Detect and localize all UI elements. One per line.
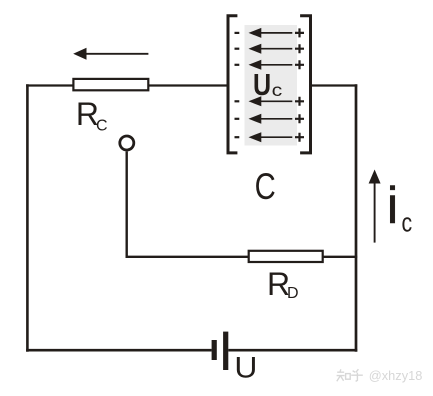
svg-text:C: C (255, 167, 276, 208)
wire: left vertical (top-left corner down to bottom-left corner) (26, 84, 29, 352)
arrow: current direction above R_C (73, 48, 148, 60)
svg-text:i: i (387, 177, 399, 235)
capacitor row 2: plus sign (295, 44, 304, 53)
wire: top horizontal, capacitor right plate to top-right corner (312, 84, 357, 86)
svg-text:@xhzy18: @xhzy18 (369, 368, 423, 383)
wire: bottom horizontal, left corner to battery (26, 349, 212, 352)
capacitor row 5: minus sign (235, 118, 240, 120)
label R_C (76, 96, 99, 132)
wire: right vertical (top-right corner to bottom-right corner) (355, 84, 358, 352)
wire: bottom horizontal, battery to bottom-right corner (228, 349, 357, 352)
svg-text:U: U (253, 66, 271, 101)
svg-text:D: D (287, 285, 299, 302)
wire: top horizontal, left segment from left corner to R_C (26, 84, 73, 86)
svg-text:c: c (402, 208, 413, 238)
resistor R_C body (73, 79, 148, 90)
watermark: zhihu logo glyphs (drawn) (337, 369, 363, 381)
capacitor row 4: minus sign (235, 100, 240, 102)
label C (capacitor) (255, 167, 276, 208)
capacitor row 1: field arrow (249, 28, 293, 38)
capacitor C: right plate bracket (300, 16, 310, 153)
capacitor row 6: minus sign (235, 136, 240, 138)
wire: node stem down to middle wire (125, 151, 127, 258)
capacitor row 2: minus sign (235, 48, 240, 50)
label U (source voltage) (234, 351, 257, 385)
capacitor row 1: plus sign (295, 28, 304, 37)
capacitor row 2: field arrow (249, 44, 293, 54)
capacitor row 3: plus sign (295, 60, 304, 69)
svg-text:U: U (234, 351, 257, 385)
capacitor row 6: plus sign (295, 133, 304, 142)
capacitor C: dielectric gray band (245, 25, 298, 146)
battery: negative plate (short bar) (212, 340, 217, 360)
capacitor row 4: plus sign (295, 97, 304, 106)
svg-text:C: C (96, 117, 108, 134)
capacitor row 4: field arrow (249, 96, 293, 106)
capacitor C: left plate bracket (228, 16, 237, 153)
node: terminal circle (120, 136, 134, 150)
label R_D (267, 266, 290, 302)
wire: middle horizontal, node stem to R_D (126, 256, 249, 258)
arrow: i_c current direction (upward) (369, 170, 381, 243)
capacitor row 5: field arrow (249, 114, 293, 124)
capacitor row 5: plus sign (295, 114, 304, 123)
wire: middle horizontal, R_D to right vertical (323, 256, 357, 258)
resistor R_D body (249, 251, 323, 262)
svg-text:c: c (272, 81, 283, 101)
wire: top horizontal, R_C to capacitor left plate (148, 84, 226, 86)
label i_c (387, 177, 399, 235)
capacitor row 3: minus sign (235, 64, 240, 66)
capacitor row 6: field arrow (249, 132, 293, 142)
capacitor row 1: minus sign (235, 32, 240, 34)
label U_C (capacitor voltage) (253, 66, 271, 101)
capacitor row 3: field arrow (249, 60, 293, 70)
battery: positive plate (tall bar) (223, 332, 228, 370)
